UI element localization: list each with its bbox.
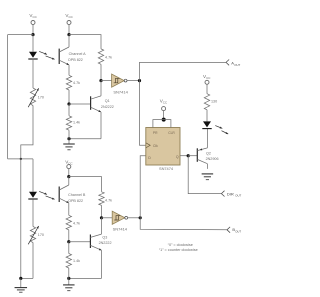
- LED D3 direction indicator: [202, 121, 211, 128]
- value 1.4k: [73, 121, 80, 125]
- potentiometer R170-B: [28, 226, 39, 244]
- wire: [206, 110, 208, 122]
- svg-text:4.7k: 4.7k: [105, 55, 112, 59]
- value 4.7k: [73, 221, 80, 225]
- svg-text:Channel A: Channel A: [69, 52, 87, 56]
- svg-text:Q: Q: [176, 155, 179, 159]
- svg-text:170: 170: [38, 233, 44, 237]
- node junction (Q1 base): [67, 102, 70, 105]
- wire to flip-flop clock: [140, 81, 148, 146]
- power VCC terminal (flip-flop preset/clear): [160, 98, 168, 110]
- svg-text:D: D: [148, 156, 151, 160]
- wire: [100, 64, 102, 80]
- resistor 4.7k (channel B collector load): [99, 192, 104, 206]
- wire: [68, 25, 70, 35]
- svg-text:OUT: OUT: [235, 230, 241, 234]
- terminal A_OUT: [226, 60, 240, 67]
- svg-text:Channel B: Channel B: [68, 193, 86, 197]
- pin PR: [153, 131, 158, 135]
- svg-text:“1” = counter clockwise: “1” = counter clockwise: [159, 248, 198, 252]
- wire: [8, 34, 33, 36]
- label SN7474: [159, 166, 174, 171]
- svg-text:VCC: VCC: [65, 159, 73, 165]
- svg-text:VCC: VCC: [65, 13, 73, 19]
- svg-text:VCC: VCC: [203, 74, 211, 80]
- label Channel B OPB 822: [68, 193, 86, 203]
- svg-text:4.7k: 4.7k: [73, 81, 80, 85]
- pin D: [148, 156, 151, 160]
- wire: [69, 177, 102, 192]
- wire to B_OUT: [140, 218, 227, 230]
- wire: [32, 159, 34, 192]
- ground (channel B): [63, 278, 75, 290]
- wire: [68, 169, 70, 177]
- flip-flop U3 SN7474 body: [146, 128, 180, 166]
- svg-text:VCC: VCC: [160, 98, 168, 104]
- terminal DIR_OUT: [221, 191, 241, 198]
- resistor 4.7k (channel B emitter): [66, 215, 71, 230]
- wire: [101, 218, 103, 234]
- resistor 4.7k (channel A collector load): [98, 49, 103, 64]
- svg-text:170: 170: [38, 96, 44, 100]
- wire: [69, 277, 102, 279]
- wire: [32, 25, 34, 35]
- wire: [102, 217, 113, 219]
- ground (left chain): [15, 278, 27, 292]
- wire: [163, 111, 165, 120]
- note text: [159, 243, 198, 252]
- light emission arrows: [215, 126, 228, 134]
- svg-text:OPB 822: OPB 822: [68, 199, 83, 203]
- wire PR/CLR tie bracket: [153, 120, 171, 128]
- wire: [101, 250, 103, 278]
- svg-text:SN7414: SN7414: [113, 90, 128, 95]
- value 170: [38, 233, 44, 237]
- svg-text:PR: PR: [153, 131, 158, 135]
- terminal B_OUT: [227, 227, 241, 234]
- wire: [100, 81, 102, 96]
- wire to A_OUT: [140, 62, 227, 80]
- value 4.7k: [105, 198, 112, 202]
- wire: [21, 277, 33, 279]
- value 4.7k: [73, 81, 80, 85]
- Schmitt inverter U1 SN7414 (channel A): [112, 74, 127, 87]
- wire: [206, 84, 208, 94]
- node junction: [138, 79, 141, 82]
- wire: [32, 58, 34, 88]
- wire to flip-flop D input: [140, 156, 147, 218]
- wire: [69, 241, 91, 243]
- LED D1 channel A emitter diode: [28, 52, 37, 59]
- pin Q: [176, 155, 179, 159]
- pin CLR: [168, 131, 175, 135]
- svg-text:Q3: Q3: [102, 235, 107, 239]
- value 1.4k: [73, 259, 80, 263]
- wire: [128, 217, 141, 219]
- wire: [100, 112, 102, 139]
- power VCC terminal (left LED chain): [29, 13, 37, 24]
- svg-text:2N2222: 2N2222: [101, 105, 114, 109]
- transistor Q3 2N2222: [90, 234, 101, 250]
- svg-text:130: 130: [211, 100, 217, 104]
- wire: [188, 155, 197, 157]
- resistor 1.4k (channel B): [66, 242, 71, 279]
- svg-text:OUT: OUT: [234, 63, 240, 67]
- power VCC terminal (channel A): [65, 13, 73, 24]
- node junction: [67, 137, 70, 140]
- wire: [32, 243, 34, 279]
- wire: [69, 103, 91, 105]
- ground (channel A): [63, 139, 75, 150]
- node junction (Q3 base): [67, 240, 70, 243]
- transistor Q2 2N2906: [197, 129, 207, 169]
- label Channel A OPB 822: [68, 52, 86, 62]
- wire: [8, 158, 33, 160]
- wire Q output: [180, 155, 188, 157]
- wire: [69, 138, 101, 140]
- wire jog: [21, 106, 33, 159]
- svg-text:CLR: CLR: [168, 131, 175, 135]
- value 4.7k: [105, 55, 112, 59]
- node junction (inverter B input): [100, 216, 103, 219]
- node junction: [67, 33, 70, 36]
- resistor 1.4k (channel A): [66, 104, 71, 139]
- svg-text:OUT: OUT: [235, 194, 241, 198]
- wire to DIR_OUT: [188, 156, 221, 194]
- label Q3 2N2222: [99, 235, 112, 245]
- svg-text:1.4k: 1.4k: [73, 121, 80, 125]
- ground (Q2): [202, 174, 214, 180]
- power VCC terminal (indicator LED): [203, 74, 211, 84]
- svg-text:VCC: VCC: [29, 13, 37, 19]
- transistor Q1 2N2222: [91, 96, 101, 112]
- svg-text:OPB 822: OPB 822: [68, 58, 83, 62]
- label SN7414: [113, 226, 128, 231]
- wire: [20, 159, 22, 279]
- power VCC terminal (channel B): [65, 159, 73, 168]
- wire: [69, 35, 101, 49]
- potentiometer R170-A: [28, 88, 39, 107]
- node junction: [67, 175, 70, 178]
- light arrows to phototransistor A: [39, 51, 54, 59]
- resistor 4.7k (channel A emitter): [66, 75, 71, 90]
- wire: [127, 80, 140, 82]
- phototransistor channel B OPB 822: [59, 177, 69, 216]
- light arrows to phototransistor B: [39, 191, 54, 199]
- LED D2 channel B emitter diode: [28, 192, 37, 199]
- node N junction: [20, 158, 22, 160]
- wire: [32, 35, 34, 52]
- svg-text:“0” = clockwise: “0” = clockwise: [168, 243, 193, 247]
- wire: [32, 199, 34, 226]
- pin Clk with wedge: [146, 143, 158, 148]
- value 130: [211, 100, 217, 104]
- svg-text:2N2906: 2N2906: [206, 157, 219, 161]
- svg-text:4.7k: 4.7k: [73, 221, 80, 225]
- node junction: [162, 118, 166, 122]
- resistor 130: [204, 94, 209, 110]
- label Q2 2N2906: [206, 151, 219, 161]
- phototransistor channel A OPB 822: [59, 35, 69, 76]
- node junction (inverter A input): [99, 79, 102, 82]
- value 170: [38, 96, 44, 100]
- wire left rail: [7, 35, 9, 159]
- svg-text:Clk: Clk: [153, 144, 158, 148]
- svg-text:2N2222: 2N2222: [99, 241, 112, 245]
- svg-text:SN7414: SN7414: [113, 226, 128, 231]
- node junction: [187, 154, 190, 157]
- svg-text:Q2: Q2: [206, 151, 211, 155]
- wire: [68, 90, 70, 104]
- Schmitt inverter U2 SN7414 (channel B): [112, 211, 127, 224]
- node junction bottom-left: [19, 277, 22, 280]
- wire: [101, 205, 103, 217]
- label SN7414: [113, 90, 128, 95]
- node junction: [139, 216, 142, 219]
- node junction: [67, 277, 70, 280]
- svg-text:DIR: DIR: [227, 191, 234, 196]
- svg-text:4.7k: 4.7k: [105, 198, 112, 202]
- svg-text:1.4k: 1.4k: [73, 259, 80, 263]
- wire: [68, 230, 70, 242]
- svg-text:Q1: Q1: [105, 99, 110, 103]
- wire: [101, 80, 112, 82]
- label Q1 2N2222: [101, 99, 114, 109]
- svg-text:SN7474: SN7474: [159, 166, 174, 171]
- node junction top-left: [31, 33, 34, 36]
